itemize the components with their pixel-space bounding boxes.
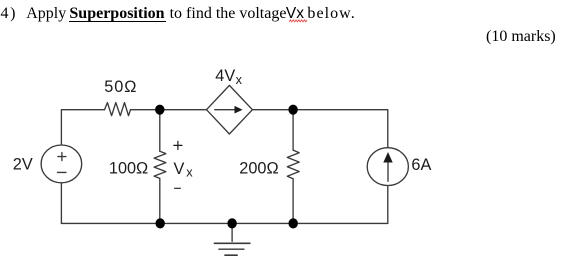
dependent source 4Vx (diamond)	[207, 85, 253, 134]
voltage source V1 2V (circle)	[41, 145, 82, 183]
resistor 50Ω (zigzag body)	[105, 103, 131, 116]
wire left rail lower	[60, 183, 62, 224]
svg-text:50Ω: 50Ω	[104, 78, 137, 96]
wire top rail middle (node A to diamond)	[131, 109, 207, 111]
title: to find the voltage	[170, 6, 287, 22]
node dot bottom under 100Ω	[156, 218, 165, 228]
wire top-left + left rail upper	[61, 110, 104, 145]
polarity minus for Vx	[175, 187, 181, 189]
title: question number	[1, 6, 18, 22]
svg-text:4V: 4V	[215, 67, 235, 85]
svg-text:200Ω: 200Ω	[239, 160, 278, 178]
title: below.	[307, 6, 355, 22]
resistor 100Ω (vertical zigzag body)	[154, 151, 166, 178]
label 100Ω	[109, 160, 148, 178]
svg-text:2V: 2V	[13, 155, 33, 173]
label 50Ω	[104, 78, 137, 96]
polarity plus for Vx	[174, 141, 182, 149]
node dot bottom ground	[227, 218, 236, 228]
underline of Superposition	[69, 21, 165, 23]
label 200Ω	[239, 160, 278, 178]
wire top rail right (diamond to right corner) + right rail upper	[252, 110, 387, 148]
resistor 200Ω (vertical zigzag body)	[287, 150, 299, 179]
plus sign inside source	[58, 153, 66, 161]
svg-text:x: x	[236, 73, 243, 87]
red spell-check squiggle under Vx	[289, 19, 309, 23]
label 4Vx	[215, 67, 242, 87]
svg-text:V: V	[174, 160, 185, 178]
wire 200Ω column upper	[292, 110, 294, 150]
svg-text:100Ω: 100Ω	[109, 160, 148, 178]
node dot top-left (node A)	[155, 105, 164, 115]
label Vx across 100Ω	[174, 160, 194, 180]
title: Superposition (bold underlined)	[69, 6, 164, 22]
svg-text:x: x	[186, 166, 193, 180]
marks note	[486, 29, 556, 45]
arrow inside diamond	[215, 106, 243, 114]
ground bars	[214, 243, 250, 255]
node dot top-right (node B)	[288, 105, 297, 115]
title: Apply	[26, 6, 66, 22]
node dot bottom under 200Ω	[289, 218, 298, 228]
svg-text:6A: 6A	[411, 156, 431, 174]
wire 100Ω column upper	[159, 110, 161, 152]
wire right rail lower	[387, 186, 389, 224]
title: Vx (sans)	[286, 6, 304, 22]
arrow inside current source	[383, 152, 392, 181]
ground stub	[231, 223, 233, 241]
wire 100Ω column lower	[159, 178, 161, 223]
current source I1 6A (circle)	[367, 148, 408, 186]
label 2V	[13, 155, 33, 173]
minus sign inside source	[58, 171, 67, 173]
label 6A	[411, 156, 431, 174]
wire bottom rail	[61, 222, 387, 224]
wire 200Ω column lower	[292, 179, 294, 224]
